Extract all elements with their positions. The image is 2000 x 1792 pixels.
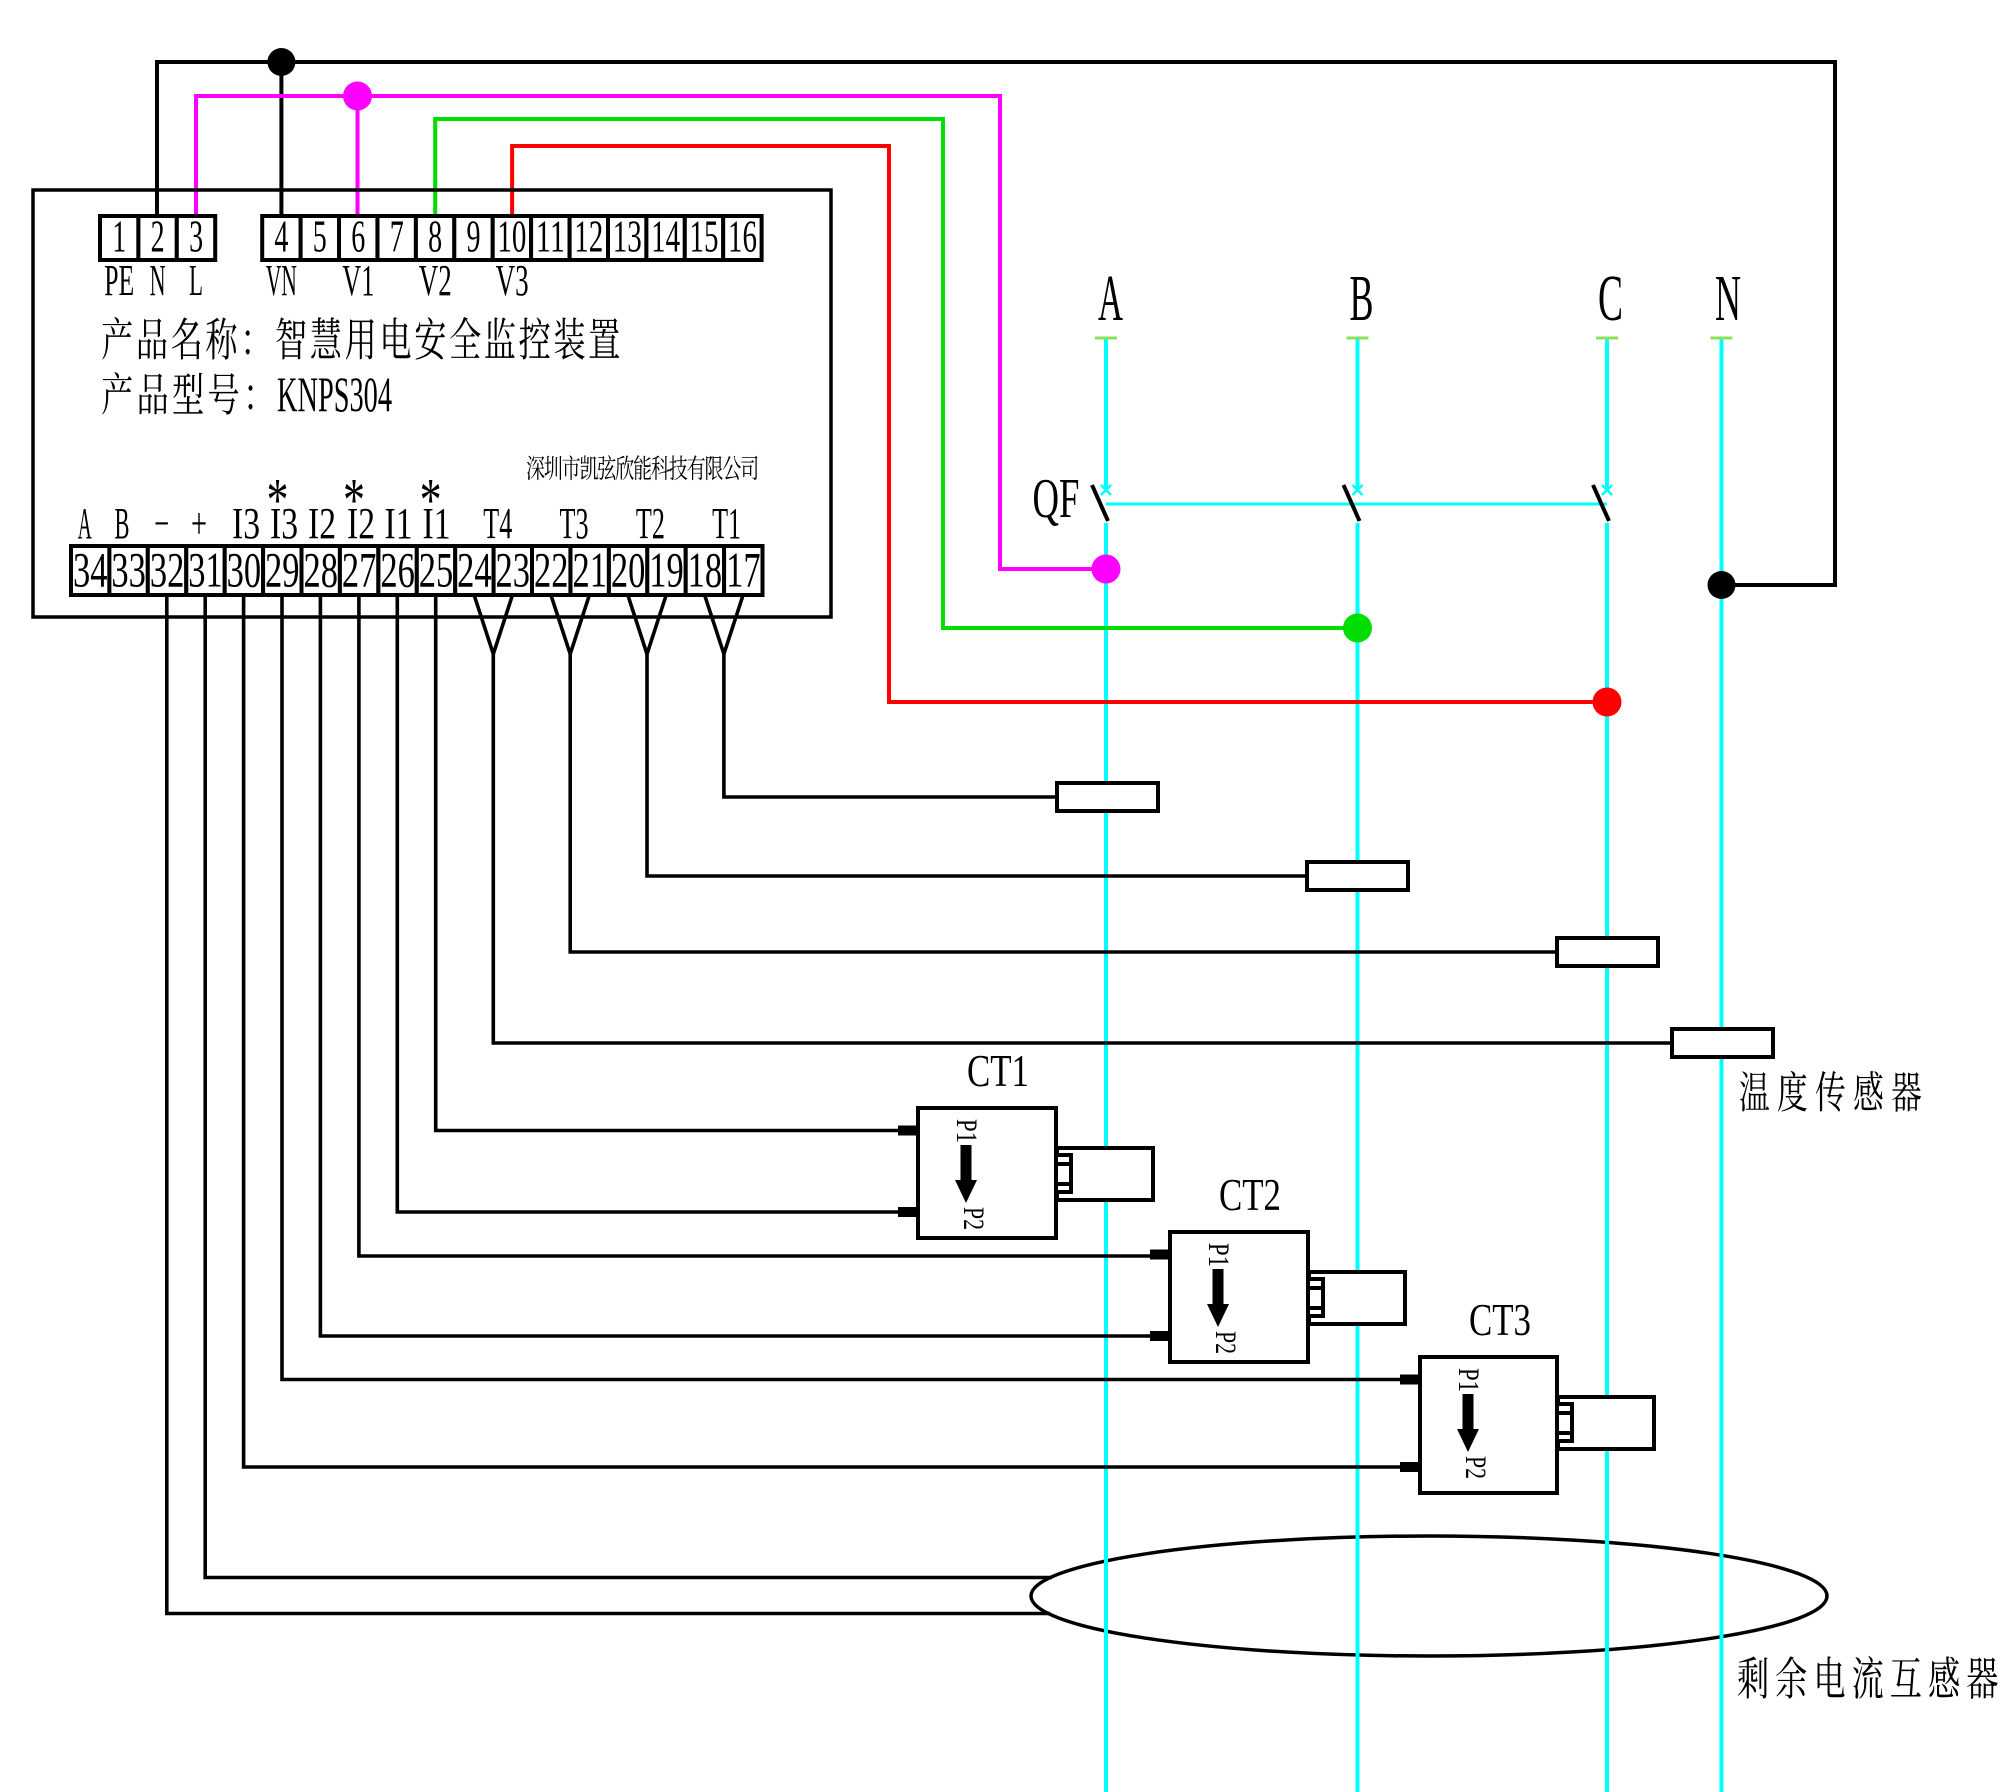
- svg-text:10: 10: [497, 211, 526, 262]
- terminal 24: [455, 542, 493, 598]
- svg-text:V2: V2: [419, 256, 452, 305]
- terminal 11: [531, 211, 569, 262]
- terminal 1: [100, 211, 138, 262]
- svg-text:P1: P1: [950, 1119, 983, 1143]
- svg-text:4: 4: [274, 211, 288, 262]
- svg-text:T4: T4: [483, 499, 512, 548]
- terminal 30: [225, 542, 263, 598]
- svg-text:27: 27: [342, 542, 377, 598]
- svg-text:11: 11: [536, 211, 565, 262]
- temperature sensor 3 (T3): [1557, 938, 1658, 966]
- terminal 26: [378, 542, 416, 598]
- junction dot black on top wire: [267, 48, 295, 76]
- svg-text:25: 25: [419, 542, 454, 598]
- terminal 29: [263, 542, 301, 598]
- svg-text:I1: I1: [385, 499, 413, 548]
- wire green: V2 terminal 8 to phase B: [435, 119, 1357, 628]
- terminal 3: [177, 211, 215, 262]
- svg-text:CT2: CT2: [1219, 1170, 1281, 1220]
- terminal 10: [493, 211, 531, 262]
- svg-text:*: *: [343, 467, 365, 534]
- label 剩余电流互感器: [1738, 1656, 1998, 1699]
- terminal 31: [186, 542, 224, 598]
- svg-text:QF: QF: [1033, 468, 1080, 530]
- svg-text:13: 13: [613, 211, 642, 262]
- svg-text:−: −: [154, 499, 169, 548]
- terminal 20: [609, 542, 647, 598]
- junction dot red on phase C: [1593, 688, 1622, 717]
- svg-text:24: 24: [457, 542, 492, 598]
- junction dot black on phase N: [1708, 571, 1736, 599]
- terminal 27: [340, 542, 378, 598]
- svg-text:V3: V3: [496, 256, 529, 305]
- svg-text:3: 3: [189, 211, 203, 262]
- svg-text:P2: P2: [1209, 1331, 1242, 1354]
- svg-text:2: 2: [151, 211, 165, 262]
- svg-text:7: 7: [390, 211, 404, 262]
- wire black: N terminal 2 to N phase line: [157, 62, 1835, 585]
- terminal 18: [686, 542, 724, 598]
- product model text 产品型号：KNPS304: [102, 366, 392, 422]
- svg-text:N: N: [150, 256, 166, 305]
- temperature sensor 2 (T2): [1307, 862, 1408, 890]
- terminal 21: [571, 542, 609, 598]
- terminal 14: [646, 211, 684, 262]
- svg-text:30: 30: [227, 542, 262, 598]
- label 温度传感器: [1740, 1071, 1921, 1112]
- svg-text:31: 31: [188, 542, 223, 598]
- svg-text:V1: V1: [342, 256, 374, 305]
- svg-text:6: 6: [351, 211, 365, 262]
- wire terminal 31 to ellipse: [205, 595, 1052, 1578]
- svg-text:CT3: CT3: [1469, 1295, 1531, 1345]
- svg-text:1: 1: [112, 211, 126, 262]
- circuit breaker QF linkage: [1106, 503, 1607, 506]
- terminal 6: [339, 211, 377, 262]
- svg-text:34: 34: [73, 542, 108, 598]
- terminal 15: [685, 211, 723, 262]
- svg-text:VN: VN: [266, 256, 297, 305]
- svg-text:A: A: [78, 499, 92, 548]
- svg-text:T2: T2: [636, 499, 665, 548]
- current transformer CT1: [898, 1108, 1153, 1238]
- terminal 17: [724, 542, 762, 598]
- svg-text:32: 32: [150, 542, 185, 598]
- terminal 13: [608, 211, 646, 262]
- terminal 25: [417, 542, 455, 598]
- wire terminal 25 to CT1 P1: [436, 595, 918, 1131]
- terminal 16: [723, 211, 761, 262]
- svg-text:N: N: [1715, 262, 1741, 335]
- temperature sensor 1 (T1): [1057, 783, 1158, 811]
- residual current transformer ellipse (剩余电流互感器): [1031, 1536, 1827, 1656]
- svg-text:29: 29: [265, 542, 300, 598]
- svg-text:*: *: [420, 467, 442, 534]
- terminal 32: [148, 542, 186, 598]
- wire terminal 26 to CT1 P2: [397, 595, 918, 1212]
- terminal 23: [494, 542, 532, 598]
- svg-text:18: 18: [688, 542, 723, 598]
- terminal 12: [570, 211, 608, 262]
- svg-text:B: B: [115, 499, 130, 548]
- svg-text:17: 17: [726, 542, 761, 598]
- terminal 2: [138, 211, 176, 262]
- terminal 33: [109, 542, 147, 598]
- svg-text:PE: PE: [104, 256, 134, 305]
- svg-text:T1: T1: [712, 499, 741, 548]
- svg-text:CT1: CT1: [967, 1046, 1029, 1096]
- svg-text:I3: I3: [232, 499, 260, 548]
- wire terminal 29 to CT3 P1: [282, 595, 1420, 1380]
- terminal 22: [532, 542, 570, 598]
- terminal 5: [301, 211, 339, 262]
- T1 wire pair to sensor 1: [705, 595, 1057, 797]
- svg-text:B: B: [1350, 262, 1374, 335]
- wire black: VN terminal 4 up to junction: [279, 62, 283, 223]
- wire magenta: V1 terminal 6 branch: [356, 96, 360, 223]
- phase line B (cyan): [1347, 338, 1369, 1792]
- current transformer CT2: [1150, 1232, 1405, 1362]
- svg-text:23: 23: [496, 542, 531, 598]
- svg-text:26: 26: [380, 542, 415, 598]
- svg-text:8: 8: [428, 211, 442, 262]
- breaker pole on phase C: [1593, 485, 1612, 521]
- svg-text:*: *: [267, 467, 289, 534]
- T3 wire pair to sensor 3: [551, 595, 1557, 952]
- wire terminal 32 to ellipse: [167, 595, 1050, 1614]
- svg-text:33: 33: [111, 542, 146, 598]
- temperature sensor 4 (T4): [1672, 1029, 1773, 1057]
- T4 wire pair to sensor 4: [474, 595, 1672, 1043]
- svg-text:P2: P2: [1459, 1456, 1492, 1479]
- svg-text:22: 22: [534, 542, 569, 598]
- svg-text:15: 15: [690, 211, 719, 262]
- svg-text:A: A: [1098, 262, 1123, 335]
- svg-text:14: 14: [651, 211, 680, 262]
- svg-text:21: 21: [572, 542, 607, 598]
- svg-text:20: 20: [611, 542, 646, 598]
- svg-text:9: 9: [467, 211, 481, 262]
- svg-text:P1: P1: [1452, 1368, 1485, 1392]
- phase line C (cyan): [1596, 338, 1618, 1792]
- svg-text:T3: T3: [560, 499, 589, 548]
- phase line A (cyan): [1095, 338, 1117, 1792]
- svg-text:+: +: [191, 499, 207, 548]
- terminal 7: [378, 211, 416, 262]
- terminal 28: [302, 542, 340, 598]
- svg-text:L: L: [189, 256, 203, 305]
- device outline box: [33, 190, 831, 617]
- wire terminal 28 to CT2 P2: [320, 595, 1170, 1336]
- svg-text:12: 12: [574, 211, 603, 262]
- wire magenta: L terminal 3 to phase A: [196, 96, 1106, 569]
- terminal 9: [454, 211, 492, 262]
- svg-text:I2: I2: [308, 499, 336, 548]
- junction dot magenta on phase A: [1092, 555, 1121, 584]
- breaker pole on phase A: [1092, 485, 1111, 521]
- svg-text:P1: P1: [1202, 1243, 1235, 1267]
- svg-text:28: 28: [303, 542, 338, 598]
- terminal 19: [647, 542, 685, 598]
- svg-text:C: C: [1598, 262, 1623, 335]
- terminal 4: [262, 211, 300, 262]
- phase line N (cyan): [1711, 338, 1733, 1792]
- wire terminal 27 to CT2 P1: [359, 595, 1170, 1256]
- wire red: V3 terminal 10 to phase C: [512, 146, 1607, 702]
- wire terminal 30 to CT3 P2: [244, 595, 1420, 1467]
- svg-text:KNPS304: KNPS304: [277, 366, 392, 422]
- terminal 34: [71, 542, 109, 598]
- product name text 产品名称：智慧用电安全监控装置: [102, 317, 619, 360]
- svg-text:P2: P2: [957, 1207, 990, 1230]
- svg-text:16: 16: [728, 211, 757, 262]
- company text 深圳市凯弦欣能科技有限公司: [527, 455, 758, 480]
- svg-text:5: 5: [313, 211, 327, 262]
- junction dot magenta on V1 branch: [343, 82, 372, 111]
- T2 wire pair to sensor 2: [628, 595, 1307, 876]
- breaker pole on phase B: [1344, 485, 1363, 521]
- terminal 8: [416, 211, 454, 262]
- current transformer CT3: [1400, 1357, 1654, 1493]
- svg-text:19: 19: [649, 542, 684, 598]
- junction dot green on phase B: [1343, 614, 1372, 643]
